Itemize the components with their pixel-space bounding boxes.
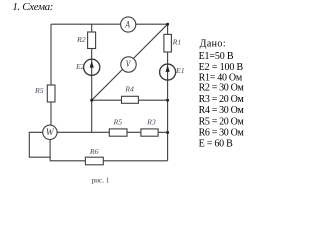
svg-text:R2 = 30 Ом: R2 = 30 Ом (199, 83, 245, 94)
svg-text:R2: R2 (76, 35, 86, 44)
svg-text:E1=50 В: E1=50 В (199, 51, 234, 62)
svg-text:Дано:: Дано: (200, 39, 226, 50)
svg-text:W: W (46, 128, 55, 138)
svg-text:R3 = 20 Ом: R3 = 20 Ом (199, 94, 245, 105)
svg-text:1. Схема:: 1. Схема: (12, 1, 53, 13)
svg-text:R4: R4 (124, 85, 134, 94)
svg-text:R4 = 30 Ом: R4 = 30 Ом (199, 105, 245, 116)
svg-text:E = 60 В: E = 60 В (199, 139, 234, 150)
svg-text:E1: E1 (175, 66, 185, 75)
svg-text:R5 = 20 Ом: R5 = 20 Ом (199, 117, 245, 128)
svg-text:A: A (124, 21, 130, 31)
svg-text:E2: E2 (75, 62, 85, 71)
svg-text:R5: R5 (34, 86, 44, 95)
svg-text:R3: R3 (146, 117, 156, 126)
svg-text:E2 = 100 В: E2 = 100 В (199, 62, 244, 73)
svg-text:R5: R5 (112, 117, 122, 126)
svg-text:R6 = 30 Ом: R6 = 30 Ом (199, 128, 245, 139)
svg-text:R1: R1 (172, 38, 182, 47)
svg-text:R6: R6 (89, 147, 99, 156)
svg-text:рис. 1: рис. 1 (92, 175, 110, 184)
